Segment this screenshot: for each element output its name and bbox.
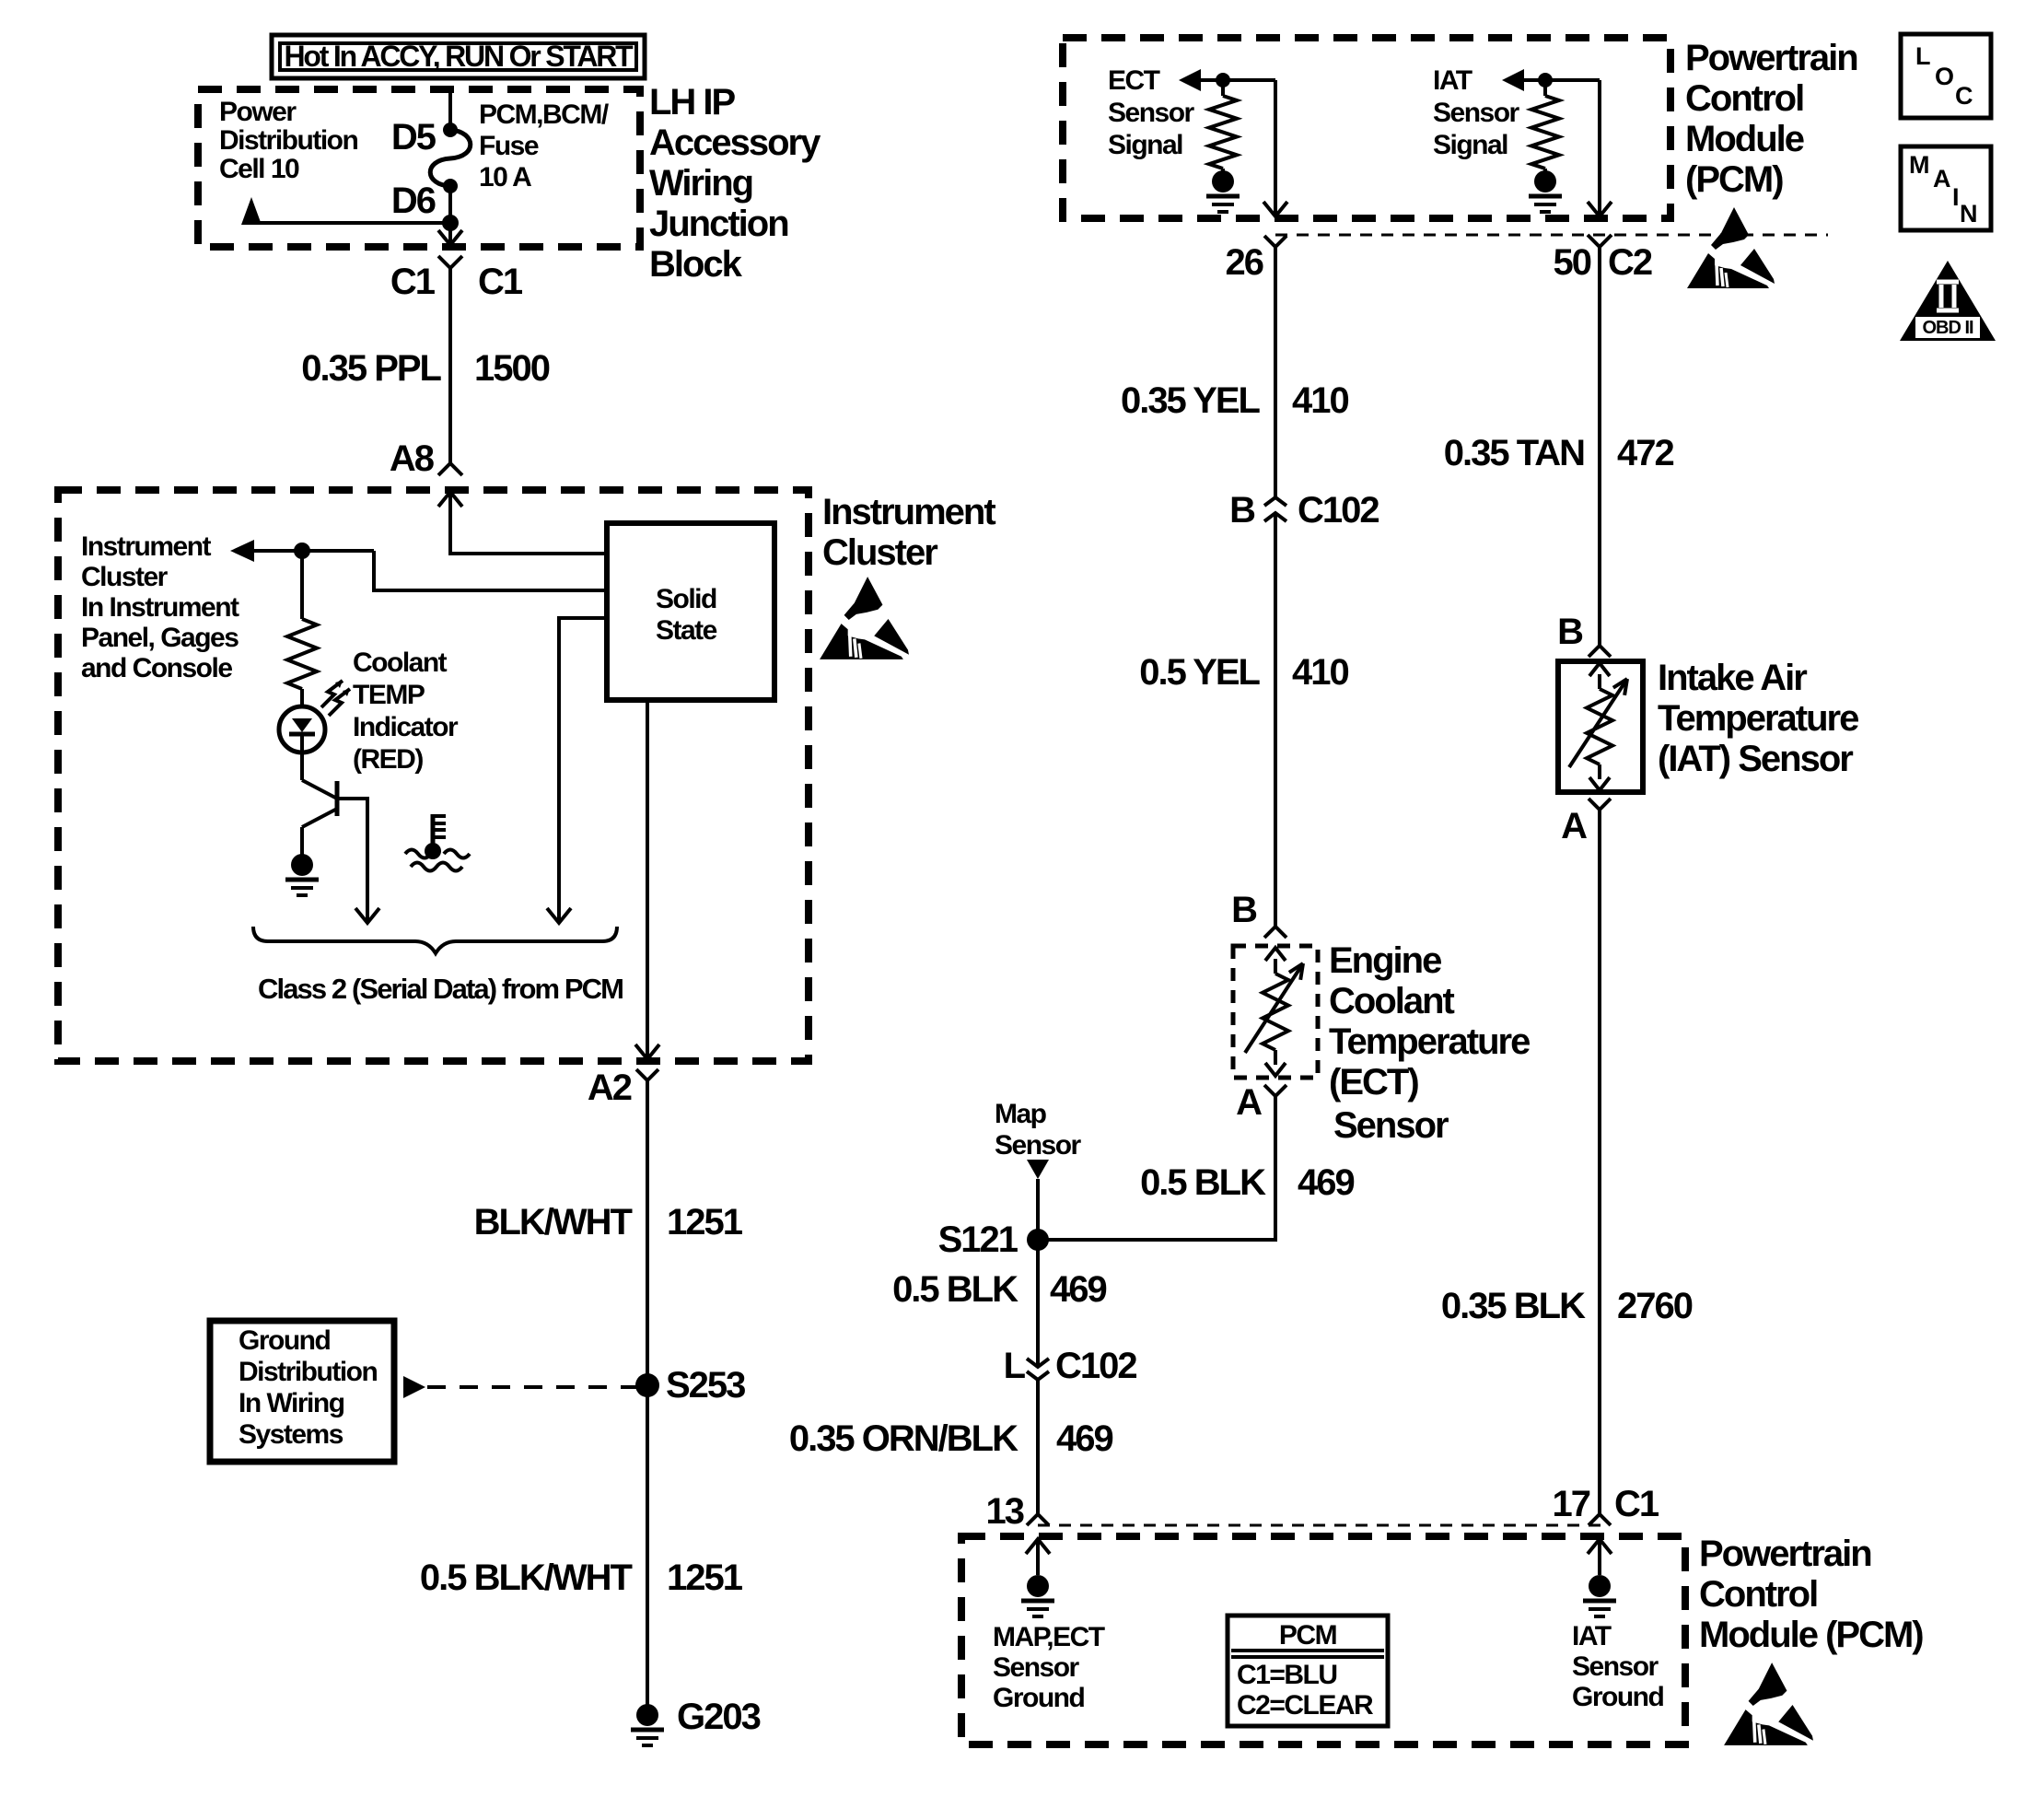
circuit number 1251 lower: [667, 1557, 743, 1598]
arrow ECT sensor signal: [1179, 69, 1201, 91]
wire label 0.35 PPL: [301, 348, 441, 389]
svg-text:A8: A8: [390, 438, 435, 479]
ground (cluster internal): [285, 854, 319, 895]
LOC reference box: [1901, 34, 1991, 118]
svg-text:Distribution: Distribution: [239, 1357, 377, 1387]
connector face dashed line (bottom): [1038, 1524, 1607, 1527]
resistor (ECT pullup): [1209, 80, 1237, 171]
map sensor label: [995, 1099, 1082, 1161]
IAT sensor box: [1558, 661, 1643, 792]
svg-text:2760: 2760: [1617, 1286, 1693, 1326]
svg-text:Sensor: Sensor: [1572, 1651, 1659, 1682]
exit arrow pin 26: [1263, 202, 1287, 216]
circuit number 410 (lower): [1292, 652, 1348, 693]
legend C2=CLEAR: [1237, 1690, 1374, 1721]
svg-text:Panel, Gages: Panel, Gages: [81, 623, 239, 653]
wire label 0.35 TAN: [1444, 433, 1584, 473]
svg-text:Sensor: Sensor: [993, 1652, 1080, 1683]
junction dot in fuse block: [442, 215, 459, 231]
svg-text:1500: 1500: [474, 348, 550, 389]
svg-text:ECT: ECT: [1108, 65, 1160, 96]
label S253: [666, 1365, 745, 1406]
wire label 0.5 BLK (right): [1140, 1162, 1266, 1203]
wire A2 to S253: [646, 1080, 649, 1385]
connector A2 female half: [636, 1069, 658, 1080]
connector C1 female half: [438, 256, 462, 462]
solid state label: [656, 584, 717, 646]
svg-text:Control: Control: [1699, 1574, 1817, 1615]
svg-text:Engine: Engine: [1329, 940, 1441, 981]
label D5: [391, 117, 436, 157]
svg-text:0.35 BLK: 0.35 BLK: [1441, 1286, 1586, 1326]
svg-text:B: B: [1557, 612, 1583, 652]
exit arrow pin 50: [1588, 202, 1612, 216]
svg-text:50: 50: [1554, 242, 1591, 283]
svg-text:0.5 YEL: 0.5 YEL: [1139, 652, 1260, 693]
svg-text:Sensor: Sensor: [1433, 98, 1520, 128]
dashed reference line to S253: [427, 1385, 638, 1389]
label C102 (lower): [1055, 1346, 1136, 1386]
instrument cluster internal label: [81, 531, 239, 683]
transistor collector diagonal: [302, 780, 337, 799]
IAT sensor ground label: [1572, 1621, 1663, 1712]
svg-text:0.35 PPL: 0.35 PPL: [301, 348, 441, 389]
svg-text:1251: 1251: [667, 1202, 743, 1242]
svg-text:Temperature: Temperature: [1329, 1021, 1530, 1062]
LED light arrows: [321, 681, 350, 716]
wire solid state to class2 arrow: [559, 618, 607, 908]
connector face dashed line (top): [1275, 234, 1828, 237]
ESD sensitivity symbol (PCM bottom): [1724, 1662, 1813, 1745]
label C2: [1608, 242, 1652, 283]
svg-text:B: B: [1229, 490, 1255, 531]
PCM bottom dashed box: [961, 1536, 1685, 1744]
svg-text:Accessory: Accessory: [649, 122, 821, 163]
ground (MAP,ECT sensor ground): [1021, 1575, 1054, 1616]
svg-text:PCM: PCM: [1279, 1620, 1336, 1651]
resistor (IAT pullup): [1531, 80, 1559, 171]
wire S253 to G203: [646, 1385, 649, 1715]
svg-text:C: C: [1955, 82, 1973, 110]
circuit number 410: [1292, 380, 1348, 421]
label B at C102: [1229, 490, 1255, 531]
svg-text:S121: S121: [938, 1219, 1018, 1260]
svg-text:Solid: Solid: [656, 584, 716, 614]
circuit number 1251: [667, 1202, 743, 1242]
pin 17 male connector: [1589, 1514, 1611, 1525]
ground distribution box: [210, 1321, 394, 1462]
label pin 17: [1553, 1484, 1590, 1524]
svg-text:410: 410: [1292, 652, 1348, 693]
junction dot ECT: [1216, 73, 1230, 87]
terminal D6 dot: [443, 179, 458, 193]
transistor emitter diagonal: [302, 809, 337, 827]
connector C102 pin B (in-line): [1264, 497, 1286, 521]
resistor (cluster LED dropping resistor): [287, 619, 317, 689]
svg-text:Power: Power: [219, 97, 297, 127]
svg-text:C102: C102: [1055, 1346, 1136, 1386]
svg-text:and Console: and Console: [81, 653, 232, 683]
svg-text:Sensor: Sensor: [1333, 1105, 1449, 1146]
wire from hot feed into junction block: [448, 91, 452, 125]
power feed label box: Hot In ACCY, RUN Or START: [272, 35, 645, 78]
svg-text:13: 13: [986, 1491, 1024, 1532]
svg-text:G203: G203: [677, 1697, 761, 1737]
svg-text:In Instrument: In Instrument: [81, 592, 239, 623]
PCM top dashed box: [1063, 38, 1670, 218]
wire leaving junction block with arrow: [438, 223, 462, 245]
LH IP junction block dashed box: [198, 89, 640, 247]
wire C102 to ECT sensor: [1274, 513, 1277, 927]
MAP ECT sensor ground label: [993, 1622, 1105, 1713]
splice S253 dot: [635, 1373, 659, 1397]
svg-text:Module (PCM): Module (PCM): [1699, 1615, 1923, 1655]
svg-text:Coolant: Coolant: [353, 647, 448, 678]
svg-text:472: 472: [1617, 433, 1673, 473]
svg-text:C102: C102: [1298, 490, 1379, 531]
ECT female connector below: [1264, 1085, 1286, 1096]
arrow to power distribution cell: [241, 197, 262, 225]
wire label 0.5 BLK (left): [892, 1269, 1018, 1310]
label D6: [391, 181, 436, 221]
IAT female connector below: [1589, 799, 1611, 810]
svg-text:C1=BLU: C1=BLU: [1237, 1660, 1337, 1690]
svg-text:Module: Module: [1685, 119, 1804, 159]
svg-text:0.5 BLK/WHT: 0.5 BLK/WHT: [420, 1557, 633, 1598]
label A at ECT: [1236, 1082, 1262, 1123]
svg-text:17: 17: [1553, 1484, 1590, 1524]
ECT variable resistor: [1245, 948, 1303, 1076]
ground (IAT sensor ground): [1583, 1575, 1616, 1616]
svg-text:Powertrain: Powertrain: [1699, 1534, 1871, 1574]
junction block title: LH IP Accessory Wiring Junction Block: [649, 82, 821, 285]
svg-text:(ECT): (ECT): [1329, 1062, 1418, 1102]
wire solid state down to A2: [646, 700, 649, 1059]
svg-text:C2: C2: [1608, 242, 1652, 283]
svg-text:469: 469: [1056, 1418, 1112, 1459]
coolant TEMP indicator label: [353, 647, 459, 775]
svg-text:Coolant: Coolant: [1329, 981, 1455, 1021]
svg-text:Wiring: Wiring: [649, 163, 752, 204]
svg-text:469: 469: [1050, 1269, 1106, 1310]
transistor Q (driver) collector from LED: [300, 752, 304, 780]
entry arrow at A8 into cluster: [438, 492, 462, 555]
svg-text:Powertrain: Powertrain: [1685, 38, 1857, 78]
circuit number 1500: [474, 348, 550, 389]
svg-text:D5: D5: [391, 117, 436, 157]
OBD II triangle symbol: [1900, 261, 1996, 341]
svg-text:A: A: [1933, 165, 1951, 192]
wire label 0.35 ORN/BLK: [789, 1418, 1018, 1459]
ground distribution label: [239, 1325, 377, 1450]
ground (ECT pullup): [1206, 170, 1240, 212]
wire IAT-A down to pin 17: [1598, 810, 1601, 1513]
svg-text:Cluster: Cluster: [81, 562, 169, 592]
wire from junction down to resistor: [300, 551, 304, 619]
svg-text:10 A: 10 A: [479, 162, 531, 192]
circuit number 2760: [1617, 1286, 1693, 1326]
label C1 at pin 17: [1614, 1484, 1659, 1524]
junction dot IAT: [1538, 73, 1553, 87]
svg-text:OBD II: OBD II: [1922, 318, 1973, 338]
svg-text:IAT: IAT: [1433, 65, 1472, 96]
ECT sensor dashed box: [1233, 946, 1318, 1078]
svg-text:469: 469: [1298, 1162, 1354, 1203]
legend C1=BLU: [1237, 1660, 1337, 1690]
transistor base bar: [335, 781, 340, 816]
svg-text:N: N: [1960, 200, 1978, 227]
entry arrow pin 13: [1026, 1539, 1050, 1575]
svg-text:0.5 BLK: 0.5 BLK: [1140, 1162, 1266, 1203]
label B at IAT: [1557, 612, 1583, 652]
svg-text:Ground: Ground: [993, 1683, 1084, 1713]
circuit number 469 (right): [1298, 1162, 1354, 1203]
arrow to ground distribution: [403, 1376, 425, 1398]
ECT sensor signal label: [1108, 65, 1195, 160]
svg-text:Intake Air: Intake Air: [1658, 658, 1807, 698]
ground G203: [631, 1704, 664, 1745]
label C1 right: [478, 262, 523, 302]
ECT sensor title: [1329, 940, 1530, 1146]
svg-text:Block: Block: [649, 244, 743, 285]
label pin 26: [1226, 242, 1263, 283]
IAT sensor signal label: [1433, 65, 1520, 160]
circuit number 472: [1617, 433, 1673, 473]
wire from A8 entry to solid state box: [450, 552, 607, 555]
svg-text:Ground: Ground: [239, 1325, 330, 1356]
solid state box: [607, 523, 774, 700]
exit arrow at cluster bottom: [635, 1044, 659, 1059]
ESD sensitivity symbol (PCM top): [1687, 207, 1775, 288]
legend header PCM: [1279, 1620, 1336, 1651]
svg-text:C1: C1: [390, 262, 436, 302]
svg-text:Sensor: Sensor: [995, 1130, 1082, 1161]
svg-text:O: O: [1935, 63, 1954, 90]
wire C102-L to pin 13: [1036, 1380, 1040, 1513]
IAT variable resistor: [1569, 663, 1627, 790]
svg-text:A: A: [1561, 806, 1587, 846]
svg-text:C1: C1: [478, 262, 523, 302]
ESD sensitivity symbol (instrument cluster): [820, 577, 909, 659]
circuit number 469 (bottom): [1056, 1418, 1112, 1459]
ECT male connector: [1264, 927, 1286, 938]
svg-text:State: State: [656, 615, 717, 646]
label pin 50: [1554, 242, 1591, 283]
svg-text:S253: S253: [666, 1365, 745, 1406]
thermometer symbol: [405, 814, 470, 871]
svg-text:I: I: [1952, 183, 1960, 211]
svg-text:26: 26: [1226, 242, 1263, 283]
label C102: [1298, 490, 1379, 531]
svg-text:C1: C1: [1614, 1484, 1659, 1524]
svg-text:D6: D6: [391, 181, 436, 221]
svg-text:C2=CLEAR: C2=CLEAR: [1237, 1690, 1374, 1721]
terminal D5 dot: [443, 122, 458, 137]
svg-text:BLK/WHT: BLK/WHT: [474, 1202, 633, 1242]
junction dot node: [294, 542, 310, 559]
svg-text:0.35 YEL: 0.35 YEL: [1121, 380, 1261, 421]
LED indicator circle: [279, 706, 325, 752]
svg-text:MAP,ECT: MAP,ECT: [993, 1622, 1105, 1652]
pin 13 male connector: [1027, 1514, 1049, 1525]
svg-text:(PCM): (PCM): [1685, 159, 1783, 200]
connector C102 pin L (in-line): [1027, 1359, 1049, 1380]
brace (class 2 group): [253, 927, 617, 953]
wire from arrow through junction: [254, 549, 374, 553]
svg-text:Junction: Junction: [649, 204, 788, 244]
svg-text:410: 410: [1292, 380, 1348, 421]
arrow to instrument cluster (left): [230, 540, 254, 562]
wire label 0.35 YEL: [1121, 380, 1261, 421]
wire emitter to ground: [300, 827, 304, 855]
wire IAT signal node: [1524, 78, 1600, 82]
svg-text:Hot In ACCY, RUN Or START: Hot In ACCY, RUN Or START: [285, 40, 634, 73]
svg-text:M: M: [1909, 151, 1930, 179]
wire down to pin 26: [1274, 80, 1277, 216]
circuit number 469 (left): [1050, 1269, 1106, 1310]
svg-text:A: A: [1236, 1082, 1262, 1123]
wire map sensor to S121: [1036, 1179, 1040, 1240]
svg-text:1251: 1251: [667, 1557, 743, 1598]
arrow down (class 2 serial data): [547, 908, 571, 923]
wire label 0.5 BLK/WHT: [420, 1557, 633, 1598]
wire to power distribution arrow: [251, 221, 450, 225]
wire resistor to LED: [300, 689, 304, 706]
wire down to pin 50: [1598, 80, 1601, 216]
svg-text:Signal: Signal: [1108, 130, 1182, 160]
IAT sensor title: [1658, 658, 1858, 779]
svg-text:A2: A2: [588, 1067, 632, 1108]
svg-text:L: L: [1004, 1346, 1026, 1386]
label A at IAT: [1561, 806, 1587, 846]
wire jog to solid state box: [374, 551, 607, 590]
svg-text:(IAT) Sensor: (IAT) Sensor: [1658, 739, 1853, 779]
arrow IAT sensor signal: [1502, 69, 1524, 91]
pin 50 female connector: [1588, 235, 1612, 645]
MAIN reference box: [1901, 146, 1991, 230]
svg-text:TEMP: TEMP: [353, 680, 425, 710]
label L at C102: [1004, 1346, 1026, 1386]
pin 26 female connector: [1264, 236, 1286, 497]
svg-text:Instrument: Instrument: [822, 492, 995, 532]
wire ECT-A down and left to S121: [1048, 1096, 1275, 1240]
svg-text:0.35 TAN: 0.35 TAN: [1444, 433, 1584, 473]
label B at ECT: [1231, 890, 1257, 930]
label A8: [390, 438, 435, 479]
svg-text:B: B: [1231, 890, 1257, 930]
connector A8 male half: [438, 463, 462, 475]
wire label 0.35 BLK: [1441, 1286, 1586, 1326]
transistor collector out: [337, 799, 367, 908]
svg-text:Control: Control: [1685, 78, 1803, 119]
entry arrow pin 17: [1588, 1539, 1612, 1575]
svg-text:Cluster: Cluster: [822, 532, 937, 573]
svg-text:(RED): (RED): [353, 744, 423, 775]
fuse label text: PCM,BCM/ Fuse 10 A: [479, 99, 610, 192]
instrument cluster title: [822, 492, 995, 573]
svg-text:PCM,BCM/: PCM,BCM/: [479, 99, 610, 130]
class 2 serial data label: [258, 973, 623, 1005]
splice S121 dot: [1027, 1229, 1049, 1251]
label G203: [677, 1697, 761, 1737]
PCM connector legend table: [1228, 1616, 1388, 1726]
wire S121 down to C102-L: [1036, 1240, 1040, 1367]
svg-text:Signal: Signal: [1433, 130, 1507, 160]
wire label 0.5 YEL: [1139, 652, 1260, 693]
svg-text:0.5 BLK: 0.5 BLK: [892, 1269, 1018, 1310]
svg-text:Systems: Systems: [239, 1419, 343, 1450]
svg-text:Sensor: Sensor: [1108, 98, 1195, 128]
LED diode symbol: [289, 718, 315, 752]
svg-text:L: L: [1915, 42, 1931, 70]
fuse F: PCM,BCM fuse 10A (curved element between D5 and D6): [430, 130, 471, 186]
wire ECT signal node: [1201, 78, 1275, 82]
instrument cluster dashed box: [58, 490, 809, 1061]
svg-text:LH IP: LH IP: [649, 82, 736, 122]
power distribution reference text: [219, 97, 357, 184]
svg-text:Ground: Ground: [1572, 1682, 1663, 1712]
svg-text:Map: Map: [995, 1099, 1047, 1129]
svg-text:Distribution: Distribution: [219, 125, 357, 156]
label A2: [588, 1067, 632, 1108]
svg-text:IAT: IAT: [1572, 1621, 1612, 1651]
ground (IAT pullup): [1529, 170, 1562, 212]
label pin 13: [986, 1491, 1024, 1532]
svg-text:Indicator: Indicator: [353, 712, 459, 742]
PCM title (top right): [1685, 38, 1857, 200]
svg-text:Cell 10: Cell 10: [219, 154, 299, 184]
label S121: [938, 1219, 1018, 1260]
PCM title (bottom right): [1699, 1534, 1923, 1655]
IAT male connector: [1589, 646, 1611, 657]
svg-text:Temperature: Temperature: [1658, 698, 1858, 739]
svg-text:Instrument: Instrument: [81, 531, 212, 562]
svg-text:Fuse: Fuse: [479, 131, 539, 161]
map sensor arrow: [1027, 1160, 1049, 1179]
svg-text:In Wiring: In Wiring: [239, 1388, 344, 1418]
arrow down from transistor: [355, 908, 379, 923]
svg-text:Class 2 (Serial Data) from PCM: Class 2 (Serial Data) from PCM: [258, 973, 623, 1005]
svg-text:0.35 ORN/BLK: 0.35 ORN/BLK: [789, 1418, 1018, 1459]
wire label BLK/WHT: [474, 1202, 633, 1242]
wire from D6 down to splice: [448, 186, 452, 223]
label C1 left: [390, 262, 436, 302]
